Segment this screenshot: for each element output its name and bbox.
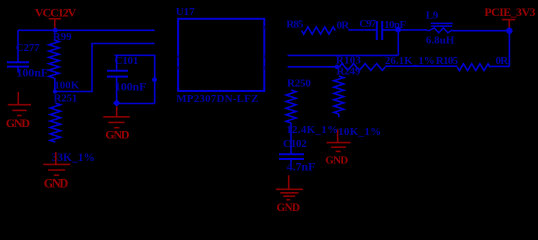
- wire IC pin row upper: [288, 54, 399, 56]
- svg-text:10K_1%: 10K_1%: [338, 126, 381, 138]
- wire C97 to L9: [383, 29, 427, 31]
- svg-text:GND: GND: [6, 116, 31, 130]
- GND label (C102): [277, 202, 300, 214]
- GND label (C277): [6, 116, 31, 130]
- svg-text:U17: U17: [176, 6, 195, 18]
- ground (C102): [276, 189, 303, 199]
- resistor R251: [50, 92, 95, 164]
- node junction on feedback column: [152, 77, 157, 82]
- GND label (R249): [325, 154, 348, 166]
- svg-text:12.4K_1%: 12.4K_1%: [286, 124, 338, 136]
- svg-text:0R: 0R: [337, 20, 351, 32]
- wire R105 to PCIE column: [490, 65, 509, 67]
- svg-text:PCIE_3V3: PCIE_3V3: [484, 5, 535, 19]
- resistor R249: [334, 66, 382, 138]
- node diamond at C101 ground: [113, 99, 120, 106]
- ground (C277): [8, 105, 31, 116]
- wire IC pin row lower: [288, 66, 337, 68]
- svg-text:GND: GND: [44, 177, 69, 191]
- svg-text:MP2307DN-LFZ: MP2307DN-LFZ: [176, 93, 258, 105]
- svg-text:0R: 0R: [496, 55, 510, 67]
- resistor R99: [49, 31, 80, 92]
- wire VCC12V horizontal rail: [18, 29, 155, 31]
- resistor R85: [286, 19, 350, 35]
- svg-text:R251: R251: [54, 92, 78, 104]
- IC U17 designator: [176, 6, 195, 18]
- node junction after C97: [395, 27, 401, 33]
- capacitor C277: [7, 42, 48, 79]
- svg-text:6.8uH: 6.8uH: [426, 35, 455, 47]
- wire L9 to PCIE node: [452, 30, 509, 32]
- node junction R249/R103: [335, 65, 339, 69]
- svg-text:VCC12V: VCC12V: [35, 5, 77, 19]
- wire C277 ground stub: [17, 92, 19, 105]
- IC pin marks: [178, 26, 264, 69]
- node junction PCIE_3V3: [506, 28, 512, 34]
- inductor L9: [426, 10, 455, 47]
- wire PCIE column down: [508, 31, 510, 67]
- wire C277 drop: [17, 30, 19, 62]
- svg-text:GND: GND: [105, 127, 130, 141]
- wire C101 bottom to column: [117, 103, 155, 105]
- wire C101 ground stub: [116, 106, 118, 116]
- IC U17 part number: [176, 93, 258, 105]
- svg-text:GND: GND: [277, 202, 300, 214]
- svg-text:33K_1%: 33K_1%: [52, 152, 95, 164]
- capacitor C101: [107, 55, 146, 101]
- wire C102 ground stub: [288, 175, 290, 189]
- node junction at R99 top: [53, 28, 58, 33]
- svg-text:4.7nF: 4.7nF: [287, 160, 316, 174]
- resistor R250: [286, 78, 338, 154]
- ground (R251): [43, 164, 70, 175]
- power PCIE_3V3: [484, 5, 535, 27]
- wire node to feedback column: [55, 44, 155, 92]
- svg-text:C101: C101: [115, 55, 139, 67]
- wire R251 ground stub: [55, 152, 57, 164]
- IC U17 body: [178, 19, 264, 91]
- ground (C101): [103, 117, 129, 128]
- node junction between R99 and R251: [53, 89, 57, 93]
- svg-text:C277: C277: [16, 42, 40, 54]
- svg-text:C102: C102: [283, 138, 307, 150]
- wire R103 to R105: [385, 65, 457, 67]
- capacitor C102: [279, 138, 315, 174]
- wire 0R to C97: [348, 29, 376, 31]
- power VCC12V: [35, 5, 77, 28]
- svg-text:L9: L9: [426, 10, 439, 22]
- resistor R105: [436, 55, 509, 71]
- svg-text:C97: C97: [359, 18, 376, 30]
- svg-text:GND: GND: [325, 154, 348, 166]
- svg-text:100K: 100K: [54, 80, 79, 92]
- svg-text:R250: R250: [287, 78, 311, 90]
- svg-text:R85: R85: [286, 19, 304, 31]
- svg-text:100nF: 100nF: [17, 65, 49, 79]
- svg-text:R105: R105: [436, 55, 459, 67]
- wire C101 top rail: [115, 55, 155, 103]
- wire branch down from C97 node: [397, 30, 399, 56]
- GND label (C101): [105, 127, 130, 141]
- ground (R249): [327, 143, 351, 152]
- svg-text:100nF: 100nF: [115, 80, 147, 94]
- resistor R103: [336, 55, 435, 71]
- wire R249 ground stub: [337, 130, 339, 143]
- capacitor C97: [359, 18, 406, 40]
- GND label (R251): [44, 177, 69, 191]
